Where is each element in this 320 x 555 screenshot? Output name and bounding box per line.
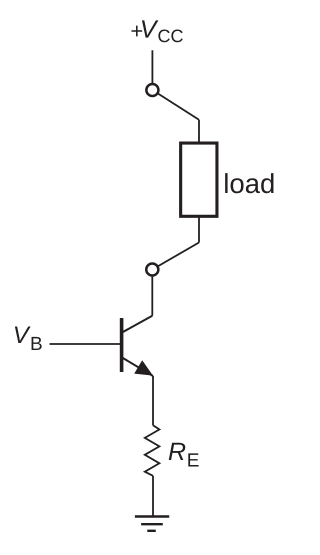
terminal circle at collector side <box>146 263 158 275</box>
wire from emitter down to RE <box>152 376 154 425</box>
transistor Q1 emitter lead <box>122 358 153 377</box>
transistor Q1 base bar <box>120 318 124 372</box>
resistor RE (zigzag) <box>145 425 160 476</box>
ground bottom bar <box>147 530 156 532</box>
wire vertical into load top <box>198 120 200 143</box>
wire diagonal from load to collector terminal <box>152 243 199 270</box>
wire vertical from terminal to collector <box>151 276 153 315</box>
wire from +VCC down to supply terminal <box>151 50 153 90</box>
node VB label <box>15 326 42 350</box>
transistor Q1 emitter arrowhead <box>134 360 153 375</box>
node +VCC label <box>131 20 182 42</box>
ground middle bar <box>141 523 163 525</box>
wire base from VB <box>50 343 122 345</box>
label RE <box>169 443 199 467</box>
ground top bar <box>135 515 169 517</box>
wire vertical from load bottom <box>198 217 200 243</box>
resistor load (rectangle) <box>181 143 217 216</box>
terminal circle at +VCC <box>146 84 158 96</box>
wire diagonal from supply terminal to load <box>152 90 199 120</box>
wire from RE down to ground <box>152 476 154 517</box>
transistor Q1 collector lead <box>122 316 152 333</box>
label load <box>225 173 273 193</box>
